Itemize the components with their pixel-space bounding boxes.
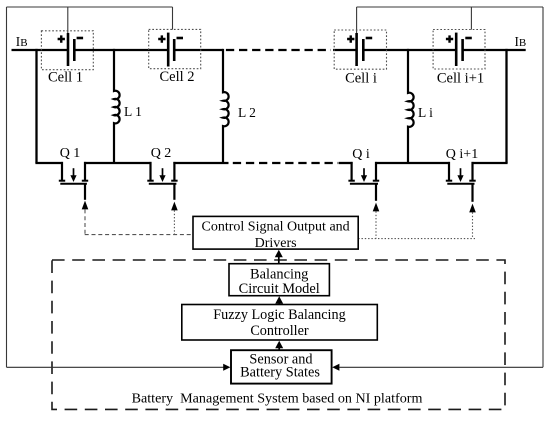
svg-text:L 1: L 1: [124, 104, 142, 119]
wire bus segment cell 1 to cell 2: [74, 49, 168, 51]
wire Q-row dashed middle: [233, 162, 339, 164]
wire gate arrow Q2: [171, 202, 178, 211]
wire control dotted horizontal right: [358, 238, 475, 240]
svg-text:Battery Management System bas: Battery Management System based on NI pl…: [132, 391, 423, 407]
svg-text:IB: IB: [16, 34, 28, 49]
box Sensor and Battery States: [231, 350, 332, 383]
svg-text:Fuzzy Logic Balancing: Fuzzy Logic Balancing: [213, 307, 345, 323]
svg-text:L 2: L 2: [238, 105, 256, 120]
svg-text:Q 2: Q 2: [151, 146, 172, 161]
wire branch Q i+1 to bus: [505, 49, 507, 163]
wire sense rail left vertical: [6, 7, 8, 367]
svg-text:Q i: Q i: [352, 147, 370, 162]
wire Q-row Q2 to dash start: [173, 162, 228, 164]
wire Q-row Q i to Q i+1: [375, 162, 450, 164]
wire bus segment cell i to cell i+1: [363, 49, 456, 51]
svg-text:Circuit Model: Circuit Model: [239, 281, 320, 297]
wire arrow Fuzzy to Balancing: [278, 303, 280, 305]
svg-text:Drivers: Drivers: [255, 236, 297, 251]
wire Q-row into Q i: [339, 162, 353, 164]
wire arrow Balancing to Control: [278, 257, 280, 264]
wire arrow Sensor to Fuzzy: [278, 348, 280, 351]
box Balancing Circuit Model: [229, 264, 329, 297]
wire gate riser dotted Q2: [173, 210, 175, 234]
wire bus segment cell 2 to L2 corner: [174, 49, 223, 51]
wire sense rail right vertical: [542, 7, 544, 367]
battery cell i: [334, 30, 386, 69]
wire gate riser dashed Q1: [84, 209, 86, 234]
wire Q-row Q1 to Q2: [84, 162, 152, 164]
wire sensor feed right: [340, 366, 544, 368]
wire sense drop to cell i plus: [356, 7, 358, 33]
wire bus dashed middle segment: [226, 49, 331, 51]
BMS dashed box: [52, 260, 505, 409]
wire gate arrow Qi: [373, 203, 380, 212]
transistor Qi: [348, 162, 379, 201]
svg-text:Cell i: Cell i: [345, 71, 377, 87]
svg-text:IB: IB: [515, 34, 527, 49]
wire sense drop to cell 1 plus: [67, 7, 69, 33]
svg-text:Controller: Controller: [250, 323, 309, 339]
battery cell 2: [149, 29, 201, 68]
wire sense top-right horizontal: [357, 6, 543, 8]
inductor L1: [114, 49, 120, 163]
box Control Signal Output and Drivers: [193, 216, 358, 251]
wire gate arrow Qi+1: [469, 204, 476, 213]
wire gate arrow Q1: [82, 201, 89, 210]
transistor Q1: [59, 162, 88, 200]
svg-text:Q i+1: Q i+1: [446, 147, 478, 162]
wire bus segment cell i+1 to right end: [463, 49, 526, 51]
wire Q-row Q i+1 to right branch: [472, 162, 508, 164]
wire bus segment into cell i: [333, 49, 357, 51]
wire gate riser dotted Qi: [375, 211, 377, 238]
wire branch bus to Q1: [35, 49, 37, 163]
wire bus segment left end to cell 1: [12, 49, 68, 51]
svg-text:Q 1: Q 1: [60, 146, 81, 161]
box Fuzzy Logic Balancing Controller: [182, 305, 377, 341]
wire sense top-left horizontal: [7, 6, 173, 8]
wire arrow into sensor left: [223, 364, 230, 371]
svg-text:Control Signal Output and: Control Signal Output and: [202, 220, 350, 235]
battery cell 1: [41, 31, 93, 70]
wire gate riser dotted Qi+1: [472, 212, 474, 238]
wire control dashed horizontal left: [85, 234, 193, 236]
wire sense drop to cell 2 minus: [172, 7, 174, 30]
wire Q-row branch to Q1: [35, 162, 63, 164]
battery cell i+1: [433, 30, 485, 70]
transistor Qi+1: [446, 162, 476, 202]
svg-text:Battery States: Battery States: [240, 364, 320, 380]
wire sensor feed left: [7, 366, 224, 368]
svg-text:Cell 2: Cell 2: [159, 69, 194, 85]
transistor Q2: [147, 162, 177, 200]
inductor Li: [408, 49, 414, 163]
svg-text:Cell i+1: Cell i+1: [437, 71, 484, 87]
wire arrow into sensor right: [332, 364, 339, 371]
wire sense drop to cell i+1 minus: [470, 7, 472, 30]
svg-text:L i: L i: [418, 105, 433, 120]
svg-text:Cell 1: Cell 1: [48, 70, 83, 86]
inductor L2: [223, 49, 229, 163]
